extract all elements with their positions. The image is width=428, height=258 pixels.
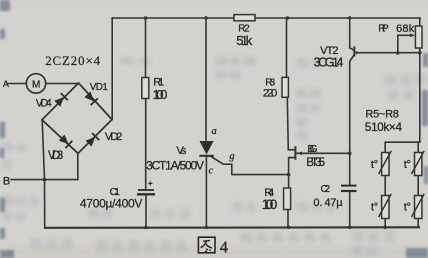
svg-text:100: 100	[262, 197, 278, 212]
svg-text:510k×4: 510k×4	[365, 120, 403, 134]
svg-text:3CT1A/500V: 3CT1A/500V	[146, 159, 204, 173]
svg-text:VD3: VD3	[48, 149, 63, 162]
svg-text:a: a	[212, 126, 217, 137]
svg-text:68k: 68k	[396, 23, 415, 35]
svg-text:BG: BG	[307, 143, 318, 155]
svg-text:4: 4	[220, 238, 228, 257]
svg-text:VD4: VD4	[36, 97, 52, 109]
svg-text:M: M	[32, 80, 40, 91]
svg-text:Vs: Vs	[176, 145, 187, 157]
svg-text:t°: t°	[371, 159, 378, 171]
svg-text:t°: t°	[371, 202, 378, 214]
svg-text:R5~R8: R5~R8	[365, 108, 399, 120]
svg-text:c: c	[209, 165, 214, 176]
svg-text:VD1: VD1	[90, 82, 109, 93]
svg-text:C2: C2	[321, 184, 331, 195]
svg-text:220: 220	[263, 87, 278, 99]
svg-text:B: B	[3, 176, 10, 188]
svg-text:RP: RP	[378, 24, 389, 35]
svg-text:t°: t°	[404, 202, 411, 214]
svg-text:3CG14: 3CG14	[314, 56, 344, 70]
svg-text:BT35: BT35	[306, 157, 325, 169]
svg-text:g: g	[229, 151, 234, 162]
svg-text:2CZ20×4: 2CZ20×4	[45, 54, 100, 68]
svg-text:A: A	[3, 79, 9, 89]
svg-text:51k: 51k	[236, 33, 253, 48]
svg-text:VD2: VD2	[105, 131, 123, 143]
svg-text:0. 47µ: 0. 47µ	[313, 197, 343, 209]
svg-text:100: 100	[153, 87, 168, 102]
svg-text:4700µ/400V: 4700µ/400V	[80, 197, 142, 211]
svg-text:t°: t°	[404, 159, 411, 171]
